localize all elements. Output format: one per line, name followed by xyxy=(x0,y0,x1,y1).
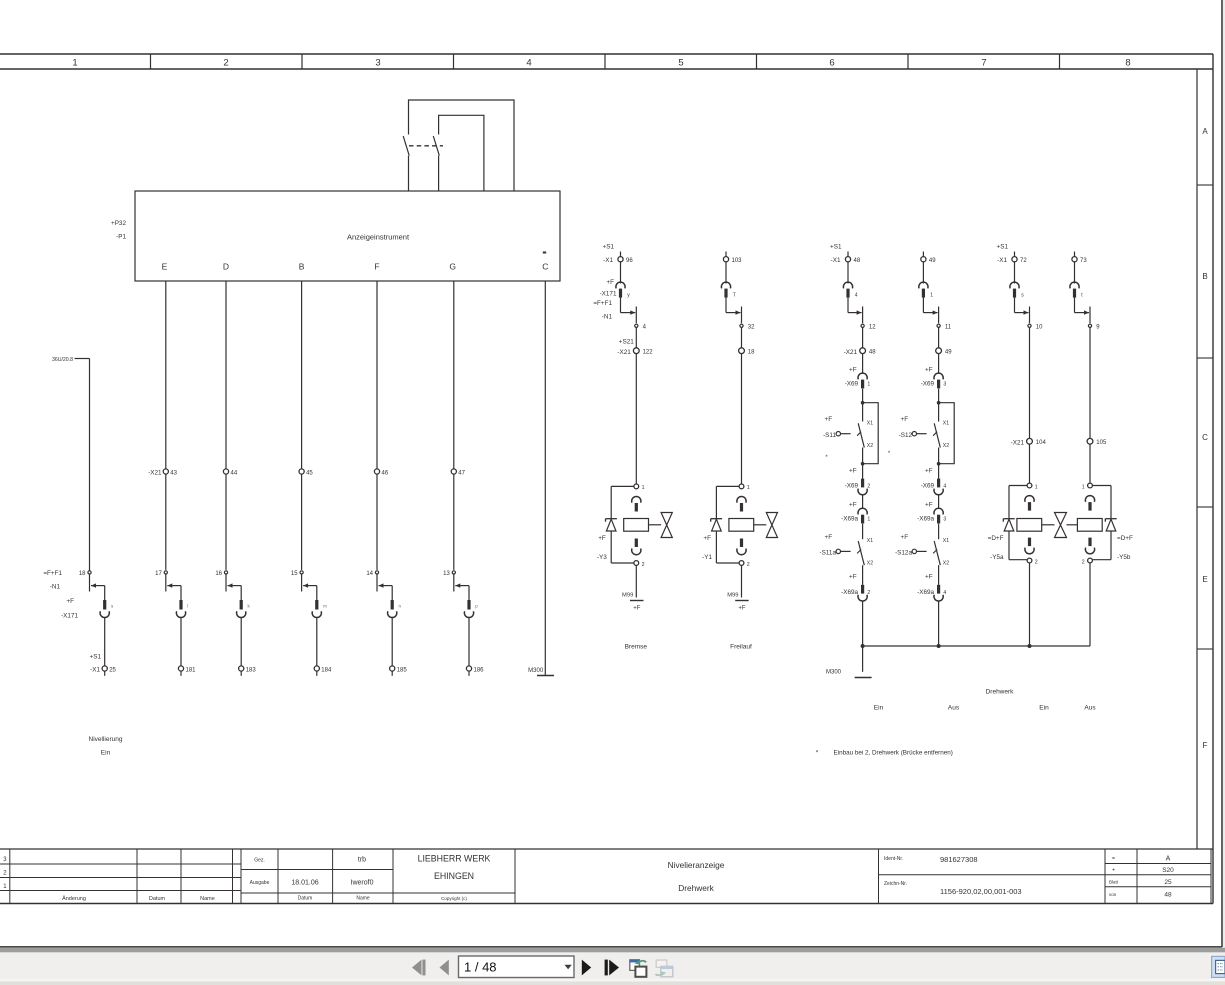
svg-text:Nivellierung: Nivellierung xyxy=(89,736,123,743)
svg-text:+F: +F xyxy=(901,534,909,541)
valve node 1 Bremse xyxy=(634,484,645,491)
switch contact S-a blade xyxy=(403,136,409,156)
svg-text:25: 25 xyxy=(1164,879,1172,886)
labels -Y5b xyxy=(1117,535,1133,561)
wire jog arrow Bremse xyxy=(593,298,636,324)
wire jog with arrow chain 3 xyxy=(228,585,242,587)
svg-text:+F: +F xyxy=(901,416,909,423)
wire -X21 pin 47 down xyxy=(453,474,455,570)
wire colD to valve xyxy=(1089,444,1091,483)
wire stub above -X1 pin 49 xyxy=(922,252,924,257)
svg-text:+F: +F xyxy=(66,598,74,605)
svg-text:1 / 48: 1 / 48 xyxy=(464,960,497,975)
wire stub below -X1 pin 25 xyxy=(104,671,106,676)
svg-text:18: 18 xyxy=(748,350,755,356)
wire Freilauf mid xyxy=(741,327,743,347)
wire colB below switch xyxy=(938,464,940,479)
pin circle 10 xyxy=(1028,324,1043,330)
svg-text:15: 15 xyxy=(291,571,298,577)
svg-text:18.01.06: 18.01.06 xyxy=(291,880,318,887)
svg-text:3: 3 xyxy=(375,58,380,69)
connector -X1 pin 96 xyxy=(603,243,634,264)
svg-text:183: 183 xyxy=(246,667,257,673)
wire colC to valve xyxy=(1029,444,1031,483)
svg-text:48: 48 xyxy=(1164,892,1172,899)
svg-text:+F: +F xyxy=(633,606,641,612)
valve node 1 -Y5b xyxy=(1082,483,1093,490)
svg-text:25: 25 xyxy=(109,667,116,673)
wire outer bridge loop xyxy=(409,100,515,191)
wire colB to -X69a xyxy=(938,495,940,509)
wire jog arrow col 49 xyxy=(922,298,924,313)
valve node 2 -Y5a xyxy=(1027,558,1038,565)
plug -X171 pin chain 6 xyxy=(464,600,478,618)
plug -X69a pin 3 xyxy=(917,502,946,524)
svg-text:36U/20.8: 36U/20.8 xyxy=(52,357,73,363)
svg-text:-Y5a: -Y5a xyxy=(990,554,1004,561)
wire stub above -X1 pin 73 xyxy=(1074,252,1076,257)
connector -X21 pin 44 xyxy=(223,469,237,476)
svg-text:10: 10 xyxy=(1036,325,1043,331)
svg-text:Ein: Ein xyxy=(874,705,884,712)
svg-text:2: 2 xyxy=(642,562,645,568)
wire colB to -S12a xyxy=(938,524,940,538)
connector -X21 pin 47 xyxy=(451,469,465,476)
svg-text:X2: X2 xyxy=(943,561,949,567)
solenoid coil -Y5a xyxy=(1017,519,1042,532)
plug -X171 pin t col xyxy=(1070,282,1079,288)
svg-text:-X21: -X21 xyxy=(148,469,162,476)
svg-text:-X1: -X1 xyxy=(831,257,841,264)
wire bus M300 xyxy=(863,645,1090,647)
svg-text:+F: +F xyxy=(849,367,857,374)
coil labels Freilauf xyxy=(702,535,712,561)
solenoid coil -Y5b xyxy=(1077,519,1102,532)
wire plug to -X1 chain 6 xyxy=(468,617,470,666)
svg-text:1: 1 xyxy=(1082,484,1085,490)
svg-text:trb: trb xyxy=(358,857,366,864)
svg-text:LIEBHERR WERK: LIEBHERR WERK xyxy=(418,854,491,864)
svg-text:+F: +F xyxy=(703,535,711,542)
wire 36U/20.8 feeder xyxy=(75,358,90,360)
plug -X171 pin chain 1 xyxy=(43,570,114,619)
plug -X69a pin 4 xyxy=(917,574,946,601)
svg-text:G: G xyxy=(449,262,456,272)
svg-text:103: 103 xyxy=(732,258,743,264)
svg-text:4: 4 xyxy=(526,58,531,69)
svg-text:+F: +F xyxy=(606,279,614,286)
wire to plug Bremse xyxy=(620,262,622,284)
wire jog with arrow chain 4 xyxy=(303,585,317,587)
plug -X69 pin 4 xyxy=(921,467,947,494)
suppressor diode branch -Y5b xyxy=(1092,486,1116,560)
wire Freilauf long xyxy=(741,354,743,484)
svg-text:48: 48 xyxy=(869,350,876,356)
svg-text:M99: M99 xyxy=(727,593,738,599)
svg-text:EHINGEN: EHINGEN xyxy=(434,871,474,881)
svg-text:8: 8 xyxy=(1125,58,1130,69)
wire plug to -X1 chain 2 xyxy=(180,617,182,666)
svg-text:Iwerof0: Iwerof0 xyxy=(351,880,374,887)
svg-text:49: 49 xyxy=(945,350,952,356)
connector pin 17 of -N1 xyxy=(155,571,167,577)
svg-text:Blatt: Blatt xyxy=(1109,880,1119,885)
valve node 2 Bremse xyxy=(634,561,645,568)
svg-text:+F: +F xyxy=(849,467,857,474)
svg-text:X2: X2 xyxy=(867,561,873,567)
svg-text:12: 12 xyxy=(869,325,876,331)
svg-text:M300: M300 xyxy=(528,668,544,674)
svg-text:l: l xyxy=(187,604,188,609)
svg-text:+S1: +S1 xyxy=(997,243,1009,250)
wire terminal D to connector -X21 xyxy=(225,281,227,469)
svg-text:96: 96 xyxy=(626,258,633,264)
wire colC long xyxy=(1029,327,1031,438)
svg-text:185: 185 xyxy=(397,667,408,673)
valve symbol Bremse xyxy=(661,513,672,538)
wire stub above connector Freilauf top xyxy=(725,252,727,257)
plug -X171 Bremse xyxy=(600,279,631,299)
svg-text:72: 72 xyxy=(1020,258,1027,264)
connector -X21 pin 45 xyxy=(299,469,313,476)
svg-text:-X171: -X171 xyxy=(600,291,617,298)
svg-text:X2: X2 xyxy=(943,443,949,449)
svg-text:-X21: -X21 xyxy=(844,349,858,356)
solenoid coil Freilauf xyxy=(729,519,754,532)
caption Nivellierung Ein xyxy=(89,736,123,757)
wire jog arrow col 72 xyxy=(1014,298,1016,313)
valve symbol Freilauf xyxy=(766,513,777,538)
svg-text:+F: +F xyxy=(825,416,833,423)
wire terminal C to M300 xyxy=(544,281,546,676)
svg-text:1: 1 xyxy=(930,293,933,299)
svg-text:Ausgabe: Ausgabe xyxy=(250,880,270,886)
connector pin 15 of -N1 xyxy=(291,571,303,577)
indicator instrument U1 +P32 -P1 (Anzeigeinstrument) xyxy=(111,191,560,281)
svg-text:-X69: -X69 xyxy=(921,483,935,490)
svg-text:32: 32 xyxy=(748,325,755,331)
svg-text:105: 105 xyxy=(1096,440,1107,446)
switch -S11 with bridge xyxy=(823,401,878,466)
svg-text:43: 43 xyxy=(170,470,177,476)
valve node 2 Freilauf xyxy=(739,561,750,568)
wire node2 down Bremse xyxy=(635,565,637,597)
svg-text:=D+F: =D+F xyxy=(1117,535,1133,542)
svg-text:T: T xyxy=(733,293,736,299)
wire jog with arrow chain 6 xyxy=(455,585,469,587)
svg-text:184: 184 xyxy=(321,667,332,673)
svg-text:B: B xyxy=(1202,272,1207,281)
svg-text:=F+F1: =F+F1 xyxy=(43,570,62,577)
svg-text:-X171: -X171 xyxy=(61,613,78,620)
svg-text:3: 3 xyxy=(943,381,946,387)
wire valve symbol to coil -Y5b xyxy=(1067,524,1078,526)
svg-text:981627308: 981627308 xyxy=(940,855,978,864)
svg-text:F: F xyxy=(1203,741,1208,750)
connector -X21 pin 49b xyxy=(936,348,953,356)
wire inner bridge loop xyxy=(439,115,484,190)
footnote xyxy=(816,750,953,757)
plug -X171 Freilauf xyxy=(721,282,735,298)
svg-text:4: 4 xyxy=(855,293,858,299)
plug -X171 pin s col xyxy=(1010,282,1019,288)
junction colC bus xyxy=(1028,644,1032,648)
plug -X171 pin chain 2 xyxy=(176,600,188,618)
wire -X21 pin 43 down xyxy=(165,474,167,570)
plug lower -Y5b xyxy=(1088,538,1091,547)
connector pin 14 of -N1 xyxy=(366,571,378,577)
svg-text:Änderung: Änderung xyxy=(62,895,86,902)
wire Bremse mid xyxy=(635,327,637,347)
svg-text:Aus: Aus xyxy=(1084,705,1096,712)
svg-text:1: 1 xyxy=(867,381,870,387)
svg-text:-X69a: -X69a xyxy=(917,589,934,596)
svg-text:49: 49 xyxy=(929,258,936,264)
wire colA to -X69 xyxy=(862,354,864,374)
wire stub above -X1 pin 72 xyxy=(1014,252,1016,257)
wire stub below pin 17 xyxy=(165,574,167,592)
svg-text:von: von xyxy=(1109,892,1117,897)
suppressor diode branch Freilauf xyxy=(711,486,739,563)
wire stub below -X1 pin 183 xyxy=(240,671,242,676)
wire terminal G to connector -X21 xyxy=(453,281,455,469)
svg-text:S20: S20 xyxy=(1162,867,1174,874)
svg-text:A: A xyxy=(1202,127,1208,136)
svg-text:47: 47 xyxy=(458,470,465,476)
connector -X1 pin 186 xyxy=(466,666,484,673)
svg-text:+F: +F xyxy=(738,606,746,612)
svg-text:M99: M99 xyxy=(622,593,633,599)
svg-text:-Y1: -Y1 xyxy=(702,554,712,561)
svg-text:+F: +F xyxy=(925,574,933,581)
labels -Y5a xyxy=(988,535,1004,561)
pin circle 11 xyxy=(937,324,952,330)
svg-text:-X69: -X69 xyxy=(921,380,935,387)
plug -X69a pin 2 xyxy=(841,574,870,601)
svg-text:46: 46 xyxy=(382,470,389,476)
svg-text:1: 1 xyxy=(642,485,645,491)
svg-text:X1: X1 xyxy=(943,421,949,427)
plug -X171 pin 1 col xyxy=(919,282,928,288)
plug lower Bremse coil xyxy=(635,539,638,548)
switch contact S-b blade xyxy=(433,136,439,156)
wire jog arrow Freilauf xyxy=(726,298,742,324)
plug -X69 pin 3 xyxy=(921,367,947,389)
wire below -X1 pin 49 xyxy=(922,262,924,284)
wire colA to -S11a xyxy=(862,524,864,538)
svg-text:Nivelieranzeige: Nivelieranzeige xyxy=(668,860,725,870)
svg-text:45: 45 xyxy=(306,470,313,476)
svg-text:1: 1 xyxy=(747,485,750,491)
wire colA to switch xyxy=(862,389,864,403)
connector -X1 pin 183 xyxy=(239,666,257,673)
svg-text:-N1: -N1 xyxy=(50,584,61,591)
svg-text:+S1: +S1 xyxy=(90,654,102,661)
svg-text:-P1: -P1 xyxy=(116,234,126,241)
svg-text:Ein: Ein xyxy=(1039,705,1049,712)
svg-text:181: 181 xyxy=(186,667,197,673)
svg-text:1156-920,02,00,001-003: 1156-920,02,00,001-003 xyxy=(940,887,1022,896)
plug lower Freilauf coil xyxy=(740,539,743,548)
svg-text:2: 2 xyxy=(867,590,870,596)
svg-text:7: 7 xyxy=(981,58,986,69)
plug upper -Y5b xyxy=(1085,496,1094,502)
svg-text:6: 6 xyxy=(829,58,834,69)
connector pin 13 of -N1 xyxy=(443,571,455,577)
svg-text:1: 1 xyxy=(1035,484,1038,490)
connector -X1 pin 73 xyxy=(1072,257,1087,264)
svg-text:1: 1 xyxy=(72,58,77,69)
connector -X21 pin 48b xyxy=(844,348,877,356)
wire jog with arrow chain 2 xyxy=(167,585,181,587)
svg-text:-X69: -X69 xyxy=(845,483,859,490)
svg-text:Ident-Nr.: Ident-Nr. xyxy=(884,856,903,862)
svg-text:2: 2 xyxy=(867,484,870,490)
wire colA to bus xyxy=(862,601,864,646)
connector -X1 pin 181 xyxy=(178,666,196,673)
wire plug to -X1 chain 5 xyxy=(391,617,393,666)
connector pin 105 xyxy=(1087,438,1107,446)
svg-text:-X21: -X21 xyxy=(1011,439,1025,446)
svg-text:1: 1 xyxy=(867,516,870,522)
wire stub below -X1 pin 184 xyxy=(316,671,318,676)
connector -X1 pin 184 xyxy=(314,666,332,673)
svg-text:-Y3: -Y3 xyxy=(597,554,607,561)
terminal M300 left xyxy=(528,668,554,676)
pin circle 9 xyxy=(1088,324,1100,330)
svg-text:+F: +F xyxy=(849,574,857,581)
wire plug to -X1 chain 1 xyxy=(104,617,106,666)
wire node2 down Freilauf xyxy=(741,565,743,597)
svg-text:Ein: Ein xyxy=(101,750,111,757)
plug upper Freilauf coil xyxy=(737,496,746,502)
plug upper -Y5a xyxy=(1025,496,1034,502)
wire terminal B to connector -X21 xyxy=(301,281,303,469)
connector -X21 pin 122 Bremse xyxy=(617,338,653,356)
svg-text:4: 4 xyxy=(943,484,946,490)
valve node 2 -Y5b xyxy=(1082,558,1093,565)
svg-text:F: F xyxy=(374,262,379,272)
svg-text:+F: +F xyxy=(925,502,933,509)
svg-text:+F: +F xyxy=(849,502,857,509)
connector -X1 pin 48 xyxy=(830,243,861,264)
wire stub below pin 18 xyxy=(89,574,91,592)
wire colB to switch xyxy=(938,389,940,403)
svg-text:3: 3 xyxy=(943,516,946,522)
wire colA to M300 xyxy=(862,646,864,672)
svg-text:+F: +F xyxy=(825,534,833,541)
wire coil to valve symbol Freilauf xyxy=(754,524,767,526)
plug -X171 pin chain 3 xyxy=(237,600,251,618)
svg-text:17: 17 xyxy=(155,571,162,577)
valve node 1 Freilauf xyxy=(739,484,750,491)
svg-text:Copyright (c): Copyright (c) xyxy=(441,896,467,901)
plug -X69 pin 1 xyxy=(845,367,871,389)
svg-text:2: 2 xyxy=(223,58,228,69)
svg-text:+S1: +S1 xyxy=(830,243,842,250)
wire -X21 pin 46 down xyxy=(376,474,378,570)
svg-text:m: m xyxy=(323,604,327,609)
plug -X69a pin 1 xyxy=(841,502,870,524)
wire colA below switch xyxy=(862,464,864,479)
connector -X1 pin 49 xyxy=(921,257,936,264)
svg-text:Anzeigeinstrument: Anzeigeinstrument xyxy=(347,233,410,242)
svg-text:-X1: -X1 xyxy=(90,666,100,673)
wire below -X1 pin 73 xyxy=(1074,262,1076,284)
svg-text:122: 122 xyxy=(643,350,654,356)
connector -X1 pin 103 xyxy=(723,257,742,264)
svg-text:Drehwerk: Drehwerk xyxy=(986,689,1015,696)
connector -X21 pin 43 xyxy=(148,469,177,476)
svg-text:X1: X1 xyxy=(943,538,949,544)
plug -X69 pin 2 xyxy=(845,467,871,494)
svg-text:M300: M300 xyxy=(826,670,842,676)
svg-text:X1: X1 xyxy=(867,538,873,544)
connector -X1 pin 185 xyxy=(390,666,408,673)
wire plug to -X1 chain 4 xyxy=(316,617,318,666)
plug -X171 pin 4 col xyxy=(843,282,852,288)
plug -X171 pin chain 4 xyxy=(312,600,327,618)
wire stub above connector Bremse top xyxy=(620,252,622,257)
svg-text:Einbau bei 2, Drehwerk (Brücke: Einbau bei 2, Drehwerk (Brücke entfernen… xyxy=(834,750,953,757)
svg-text:Aus: Aus xyxy=(948,705,960,712)
svg-text:+S21: +S21 xyxy=(619,338,634,345)
svg-text:Drehwerk: Drehwerk xyxy=(678,883,714,893)
connector -X21 pin 46 xyxy=(374,469,388,476)
svg-text:Bremse: Bremse xyxy=(625,644,648,651)
svg-text:B: B xyxy=(299,262,305,272)
wire coil -Y5a to valve symbol xyxy=(1042,524,1055,526)
wire coil to valve symbol Bremse xyxy=(649,524,662,526)
junction colB bus xyxy=(937,644,941,648)
wire stub below pin 15 xyxy=(301,574,303,592)
wire colC to bus xyxy=(1029,563,1031,646)
valve symbol Drehwerk xyxy=(1055,513,1067,538)
svg-text:C: C xyxy=(1202,433,1208,442)
wire colB mid xyxy=(938,327,940,347)
svg-text:Zeichn-Nr.: Zeichn-Nr. xyxy=(884,881,907,887)
wire colA mid xyxy=(862,327,864,347)
svg-text:+F: +F xyxy=(925,367,933,374)
pin circle 12 xyxy=(861,324,876,330)
svg-text:2: 2 xyxy=(1035,559,1038,565)
svg-text:-S11a: -S11a xyxy=(820,550,837,557)
svg-text:+: + xyxy=(1112,868,1115,874)
wire plug to -X1 chain 3 xyxy=(240,617,242,666)
plug -X171 pin chain 5 xyxy=(388,600,402,618)
wire colD long xyxy=(1089,327,1091,438)
connector pin 18 of -N1 xyxy=(79,571,91,577)
svg-text:-N1: -N1 xyxy=(602,314,613,321)
svg-text:11: 11 xyxy=(945,325,952,331)
svg-text:-X69a: -X69a xyxy=(841,589,858,596)
title block xyxy=(0,849,1213,904)
wire colD to bus xyxy=(1089,563,1091,646)
connector -X21 pin 18 Freilauf xyxy=(739,348,756,356)
wire terminal F to connector -X21 xyxy=(376,281,378,469)
wire stub below -X1 pin 186 xyxy=(468,671,470,676)
svg-text:Gez.: Gez. xyxy=(254,858,265,864)
svg-text:-X1: -X1 xyxy=(603,257,613,264)
wire stub below -X1 pin 181 xyxy=(180,671,182,676)
svg-text:-X1: -X1 xyxy=(997,257,1007,264)
connector -X21 pin 104 xyxy=(1011,438,1047,446)
wire -X21 pin 44 down xyxy=(225,474,227,570)
pin circle 4 Bremse xyxy=(635,324,647,330)
svg-text:-S11: -S11 xyxy=(823,432,836,439)
svg-text:A: A xyxy=(1166,856,1171,863)
svg-text:-X21: -X21 xyxy=(617,349,631,356)
